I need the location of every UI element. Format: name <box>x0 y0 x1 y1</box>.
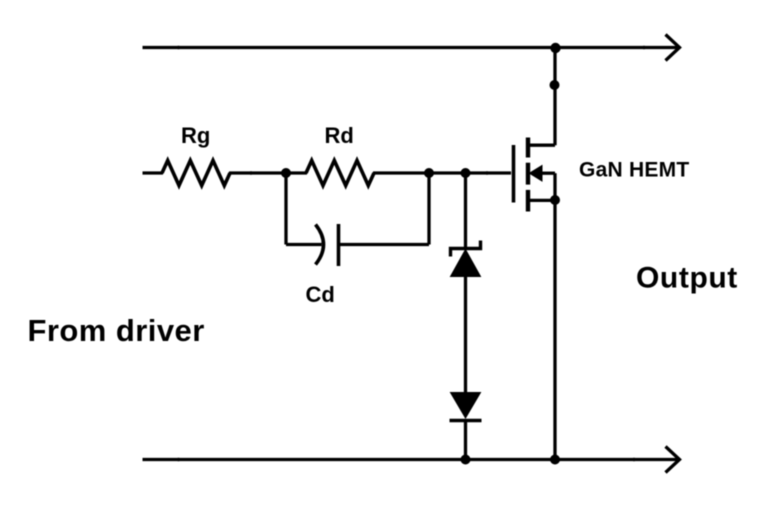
junction vertex dot on bottom rail right <box>632 458 636 462</box>
node A dot <box>281 168 291 178</box>
wire cap branch left horizontal <box>286 243 322 246</box>
diode D2 triangle <box>451 393 481 419</box>
svg-text:Rd: Rd <box>325 123 354 148</box>
transistor Q1 gate bar <box>512 145 516 203</box>
wire gate input left <box>143 171 164 174</box>
junction dot source/body <box>550 195 560 205</box>
arrow bottom output <box>666 447 680 473</box>
svg-text:Output: Output <box>636 262 738 295</box>
svg-text:Rg: Rg <box>181 123 210 148</box>
transistor Q1 drain tab <box>528 144 555 147</box>
wire D1 to D2 <box>464 275 467 394</box>
resistor Rd <box>306 161 374 186</box>
node C dot <box>461 168 471 178</box>
wire cap branch right horizontal <box>339 243 430 246</box>
arrow top output <box>666 35 680 61</box>
junction vertex dot on top rail <box>177 46 181 50</box>
diode D1 zener triangle <box>451 250 481 277</box>
transistor Q1 channel dash source <box>526 190 530 212</box>
diode D1 zener cathode bar <box>451 241 481 257</box>
junction vertex dot on gate lead <box>485 171 488 174</box>
transistor Q1 channel dash body <box>526 163 530 185</box>
transistor Q1 body line <box>541 172 555 175</box>
svg-text:Cd: Cd <box>306 282 335 307</box>
junction dot source at bottom rail <box>550 455 560 465</box>
wire bottom rail <box>143 458 679 461</box>
wire cap branch left vertical <box>284 173 287 245</box>
junction dot on drain wire <box>550 80 560 90</box>
wire node A to Rd <box>286 171 307 174</box>
wire cap branch right vertical <box>427 173 430 245</box>
junction dot diode branch at bottom rail <box>461 455 471 465</box>
capacitor Cd curved plate <box>316 225 324 265</box>
junction vertex dot on bottom rail <box>177 458 181 462</box>
wire Rd to node B <box>373 171 429 174</box>
wire Rg to node A <box>229 171 286 174</box>
junction vertex dot on top rail right <box>642 46 646 50</box>
transistor Q1 body arrow <box>530 166 543 182</box>
resistor Rg <box>162 161 230 186</box>
svg-text:GaN HEMT: GaN HEMT <box>579 158 690 181</box>
node B dot <box>424 168 434 178</box>
wire drain up to top rail <box>553 48 556 146</box>
wire node B to node C <box>429 171 466 174</box>
wire D2 to bottom rail <box>464 421 467 460</box>
wire node C down to D1 <box>464 173 467 249</box>
diode D2 cathode bar <box>450 419 482 422</box>
transistor Q1 channel dash drain <box>526 138 530 158</box>
wire body to source <box>553 173 556 200</box>
wire top rail <box>143 46 679 49</box>
wire source down to bottom rail <box>553 200 556 459</box>
svg-text:From driver: From driver <box>28 313 205 348</box>
wire node C to gate <box>466 171 512 174</box>
transistor Q1 source tab <box>528 199 555 202</box>
junction vertex dot <box>249 171 253 175</box>
capacitor Cd straight plate <box>337 224 341 266</box>
junction dot drain at top rail <box>550 43 560 53</box>
